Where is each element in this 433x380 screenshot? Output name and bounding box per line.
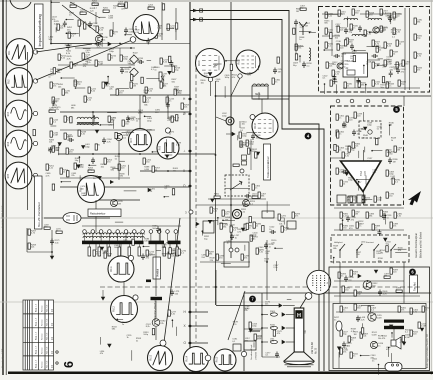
value label xyxy=(93,176,99,180)
value label xyxy=(80,186,86,190)
resistor RG8 xyxy=(380,26,388,32)
wire xyxy=(334,280,404,282)
junction xyxy=(274,247,276,249)
resistor RC5 xyxy=(64,116,73,122)
electrolytic CM1 xyxy=(334,317,342,331)
diode DV1 xyxy=(256,152,259,155)
tube Rö13 xyxy=(148,346,173,371)
junction xyxy=(333,257,335,259)
value label xyxy=(94,5,100,9)
wire xyxy=(391,333,393,338)
junction xyxy=(215,154,217,156)
resistor RBB5 xyxy=(138,244,141,256)
svg-text:Service: Service xyxy=(42,304,44,312)
value label xyxy=(375,46,381,50)
resistor xyxy=(337,132,339,138)
wire xyxy=(380,196,382,201)
value label xyxy=(367,122,373,126)
resistor xyxy=(169,248,171,254)
diamond junction xyxy=(130,55,139,64)
resistor RJ8 xyxy=(386,170,395,176)
value label xyxy=(370,355,376,359)
resistor RBB3 xyxy=(118,244,121,256)
coil L4 xyxy=(344,18,358,20)
wire xyxy=(95,200,97,232)
wire xyxy=(394,248,407,250)
resistor RB3 xyxy=(155,32,164,38)
value label xyxy=(123,237,129,241)
transistor QA1 xyxy=(95,35,108,42)
junction xyxy=(389,124,391,126)
resistor RG20 xyxy=(332,70,341,76)
resistor RG33 xyxy=(376,46,385,52)
svg-text:Service: Service xyxy=(42,346,44,354)
junction xyxy=(225,60,227,62)
value label xyxy=(155,110,161,114)
wire xyxy=(390,13,392,24)
value label xyxy=(75,158,81,162)
wire xyxy=(331,157,345,159)
wire xyxy=(66,32,78,34)
value label xyxy=(305,330,307,334)
value label xyxy=(128,61,134,65)
wire xyxy=(224,86,226,98)
resistor RJ10 xyxy=(336,168,345,174)
wire horizontal bus y96 xyxy=(216,95,431,97)
value label xyxy=(341,60,347,64)
diode xyxy=(168,71,171,74)
value label xyxy=(372,358,378,362)
wire xyxy=(378,58,383,60)
terminal xyxy=(238,74,242,78)
svg-text:Service: Service xyxy=(42,318,44,326)
resistor xyxy=(95,144,97,150)
capacitor CF1 xyxy=(230,234,240,241)
wire xyxy=(364,147,366,153)
resistor RM4 xyxy=(410,308,419,314)
resistor RK3 xyxy=(380,210,389,216)
value label xyxy=(97,44,103,48)
table xyxy=(23,300,54,370)
tube V1 partial xyxy=(10,0,31,9)
capacitor CH2 xyxy=(294,20,298,27)
value label xyxy=(230,224,236,228)
value label xyxy=(350,56,356,60)
value label xyxy=(135,30,141,34)
resistor RK2 xyxy=(366,212,375,218)
diode xyxy=(211,199,214,202)
resistor RN1 xyxy=(338,272,347,278)
wire xyxy=(363,190,365,205)
resistor RC16 xyxy=(143,158,152,164)
diode DL3 xyxy=(282,340,295,343)
wire vertical bus 2 xyxy=(230,2,232,258)
junction xyxy=(261,327,263,329)
junction xyxy=(215,95,217,97)
resistor RF8 xyxy=(278,214,287,220)
wire diagonal xyxy=(36,44,92,52)
tube Rö10 oval xyxy=(63,213,81,224)
junction xyxy=(324,49,326,51)
value label xyxy=(387,59,393,63)
coil L3 xyxy=(83,236,144,238)
capacitor CE2 xyxy=(170,290,180,297)
resistor xyxy=(330,33,332,39)
value label xyxy=(52,17,57,21)
value label xyxy=(258,247,264,251)
junction xyxy=(369,32,371,34)
resistor xyxy=(52,184,54,190)
value label xyxy=(151,67,157,71)
diode xyxy=(208,73,211,76)
wire xyxy=(164,65,177,67)
junction xyxy=(354,50,356,52)
resistor RM1 xyxy=(354,304,363,310)
value label xyxy=(354,332,360,336)
wire xyxy=(51,230,53,256)
capacitor xyxy=(333,77,337,84)
value label xyxy=(67,56,73,60)
value label xyxy=(359,129,365,133)
resistor RG22 xyxy=(384,60,393,66)
junction xyxy=(360,355,362,357)
capacitor CB1 xyxy=(102,138,112,145)
wire xyxy=(106,244,108,252)
terminal pin xyxy=(116,230,120,241)
wire module boundary inner xyxy=(190,20,324,372)
wire xyxy=(51,43,96,45)
label Impulsverarbeitung xyxy=(35,4,44,49)
resistor RN6 xyxy=(396,287,402,292)
value label xyxy=(152,226,158,230)
wire xyxy=(338,352,340,368)
junction xyxy=(124,34,126,36)
resistor RG5 xyxy=(393,12,402,18)
svg-text:Rö4: Rö4 xyxy=(8,141,10,146)
resistor RV3 xyxy=(252,184,261,190)
junction xyxy=(128,117,130,119)
svg-text:⊥: ⊥ xyxy=(183,149,186,153)
resistor RB12 xyxy=(50,82,59,88)
terminal xyxy=(250,115,255,120)
resistor RJ3 xyxy=(348,146,357,152)
box component xyxy=(262,211,274,218)
wire xyxy=(164,154,172,156)
terminal pin xyxy=(157,230,161,241)
wire xyxy=(44,217,63,219)
terminal xyxy=(205,355,211,361)
capacitor CK2 xyxy=(382,214,392,221)
diode xyxy=(345,173,348,176)
junction xyxy=(164,196,166,198)
resistor xyxy=(84,23,86,29)
resistor RM11 xyxy=(418,322,427,328)
box component xyxy=(203,221,214,240)
junction xyxy=(371,150,373,152)
wire xyxy=(83,48,91,50)
value label xyxy=(232,75,238,79)
resistor RBB4 xyxy=(128,244,131,256)
svg-text:Service: Service xyxy=(42,360,44,368)
capacitor CN1 xyxy=(344,276,354,283)
value label xyxy=(48,148,54,152)
value label xyxy=(112,326,118,330)
value label xyxy=(172,248,178,252)
capacitor CJ3 xyxy=(342,170,349,174)
resistor RB9 xyxy=(108,54,117,60)
junction xyxy=(385,215,387,217)
junction xyxy=(377,64,379,66)
wire xyxy=(50,125,56,127)
terminal Rö2 pin xyxy=(32,79,38,83)
value label xyxy=(204,73,210,77)
junction xyxy=(159,228,161,230)
wire xyxy=(166,27,174,29)
capacitor CK1 xyxy=(346,216,356,223)
capacitor CE1 xyxy=(141,254,151,261)
value label xyxy=(305,23,311,27)
value label xyxy=(49,37,54,41)
resistor RD3 xyxy=(44,224,50,229)
capacitor CF3 xyxy=(270,230,277,234)
wire diagonal xyxy=(70,2,100,18)
tube Rö3 xyxy=(5,100,32,127)
node 5 disc xyxy=(393,106,400,113)
value label xyxy=(357,182,363,186)
svg-text:NE11: NE11 xyxy=(255,94,261,96)
resistor RC7 xyxy=(64,133,73,139)
value label xyxy=(86,50,92,54)
diode xyxy=(208,220,211,223)
resistor RF_h1 xyxy=(214,193,220,198)
wire xyxy=(50,0,52,44)
value label xyxy=(95,145,101,149)
value label xyxy=(351,329,357,333)
junction xyxy=(299,55,301,57)
wire xyxy=(92,112,94,126)
wire xyxy=(249,330,261,332)
value label xyxy=(366,61,372,65)
value label xyxy=(100,351,105,355)
wire xyxy=(231,78,240,96)
wire xyxy=(128,165,130,176)
ferrite bar 3 xyxy=(168,241,181,245)
wire xyxy=(223,219,235,221)
value label xyxy=(386,57,392,61)
node X xyxy=(183,169,192,173)
resistor RJ12 xyxy=(350,196,358,202)
resistor RC15 xyxy=(118,164,127,170)
wire xyxy=(124,190,137,192)
value label xyxy=(341,54,347,58)
transistor QB1 xyxy=(115,133,129,140)
wire diagonal xyxy=(228,291,245,340)
junction xyxy=(363,65,365,67)
resistor RV4 xyxy=(258,192,267,198)
svg-text:17TB400: 17TB400 xyxy=(256,351,258,360)
terminal xyxy=(235,248,239,252)
resistor RJ11 xyxy=(340,180,349,186)
value label xyxy=(146,324,152,328)
ferrite bar xyxy=(82,241,144,245)
capacitor xyxy=(332,74,336,81)
wire xyxy=(89,164,96,166)
resistor RM3 xyxy=(398,306,407,312)
wire xyxy=(362,323,364,332)
resistor xyxy=(382,77,384,83)
arrow mark xyxy=(408,191,421,205)
diode DF2 xyxy=(241,228,244,231)
wire xyxy=(365,85,367,94)
resistor RM12 xyxy=(422,306,431,312)
node 7 disc xyxy=(249,296,256,303)
resistor RB23 xyxy=(96,26,105,32)
value label xyxy=(344,346,349,350)
svg-text:Service: Service xyxy=(42,332,44,340)
wire xyxy=(125,34,132,36)
resistor RF_h2 xyxy=(252,193,258,198)
svg-text:Rö18: Rö18 xyxy=(255,122,257,128)
svg-text:Ton-ZF-Verstärker: Ton-ZF-Verstärker xyxy=(37,202,41,227)
value label xyxy=(103,251,108,255)
resistor RB1 xyxy=(68,32,77,38)
junction xyxy=(309,32,311,34)
wire xyxy=(76,87,86,89)
svg-text:Rö8: Rö8 xyxy=(159,145,161,150)
resistor RB22 xyxy=(120,55,129,61)
wire xyxy=(360,13,402,15)
value label xyxy=(277,331,283,335)
resistor RC_h1 xyxy=(49,107,55,112)
wire xyxy=(403,262,405,303)
diode xyxy=(108,344,111,347)
wire xyxy=(354,77,356,88)
svg-text:Rö3: Rö3 xyxy=(8,111,10,116)
resistor RA5 xyxy=(80,9,86,14)
diode DN2 xyxy=(374,270,377,273)
wire xyxy=(334,229,404,231)
tube Rö6 xyxy=(133,15,159,41)
svg-text:TDA: TDA xyxy=(360,171,363,176)
wire xyxy=(365,175,367,184)
svg-text:Abgl. 1-5: Abgl. 1-5 xyxy=(35,345,38,354)
box component xyxy=(337,195,365,203)
value label xyxy=(240,128,246,132)
capacitor CB4 xyxy=(91,158,95,165)
wire xyxy=(53,100,55,107)
value label xyxy=(225,75,231,79)
resistor RD1 xyxy=(28,229,37,235)
junction xyxy=(215,286,217,288)
diode xyxy=(249,329,252,332)
capacitor CA2 xyxy=(124,28,134,35)
value label xyxy=(257,336,263,340)
resistor RG29 xyxy=(398,80,407,86)
wire xyxy=(331,20,333,56)
wire xyxy=(155,301,157,319)
value label xyxy=(52,105,58,109)
value label xyxy=(237,229,243,233)
terminal pin xyxy=(124,230,128,241)
svg-text:Rö1: Rö1 xyxy=(9,50,11,55)
value label xyxy=(54,21,60,25)
svg-text:Abgl. 1-5: Abgl. 1-5 xyxy=(35,359,38,368)
value label xyxy=(50,69,56,73)
wire xyxy=(51,1,60,3)
resistor RC10 xyxy=(66,148,75,154)
capacitor CJ2 xyxy=(388,158,398,165)
wire xyxy=(225,188,250,190)
wire xyxy=(171,320,173,327)
wire xyxy=(347,17,349,28)
junction xyxy=(66,19,68,21)
junction xyxy=(79,156,81,158)
value label xyxy=(400,340,406,344)
node 3 xyxy=(185,210,193,215)
label Videoverstärker xyxy=(264,144,271,180)
value label xyxy=(296,9,302,13)
resistor RN7 xyxy=(390,268,399,274)
resistor xyxy=(246,223,248,229)
resistor RL4 xyxy=(249,322,258,328)
value label xyxy=(348,177,354,181)
value label xyxy=(162,244,168,248)
resistor RK5 xyxy=(340,224,349,230)
value label xyxy=(398,248,404,252)
junction xyxy=(391,332,393,334)
resistor RF0 xyxy=(220,223,229,229)
wire xyxy=(78,26,80,37)
value label xyxy=(383,27,389,31)
wire xyxy=(201,231,203,235)
junction xyxy=(100,124,102,126)
wire bottom enclosure xyxy=(244,293,431,371)
svg-text:Sach-Nr. 29305-044.45: Sach-Nr. 29305-044.45 xyxy=(1,205,4,228)
value label xyxy=(382,336,388,340)
resistor RJ9 xyxy=(392,178,401,184)
wire xyxy=(93,116,95,122)
resistor xyxy=(176,115,178,121)
svg-text:Rö11: Rö11 xyxy=(111,266,113,272)
junction xyxy=(365,84,367,86)
svg-text:Helligkeit: Helligkeit xyxy=(334,241,343,244)
resistor xyxy=(293,28,295,34)
wire xyxy=(208,198,266,200)
value label xyxy=(377,126,383,130)
wire xyxy=(65,44,72,46)
wire xyxy=(357,179,371,181)
node ⊥ xyxy=(183,149,192,153)
resistor xyxy=(141,77,143,83)
diode xyxy=(77,165,80,168)
junction xyxy=(143,246,145,248)
resistor xyxy=(273,330,275,336)
wire xyxy=(196,204,290,206)
capacitor CG3 xyxy=(388,16,398,23)
value label xyxy=(120,173,126,177)
label AW43-88 xyxy=(310,342,318,354)
wire xyxy=(100,16,106,18)
module box 4 xyxy=(333,304,426,369)
resistor RF4 xyxy=(206,250,215,256)
terminal xyxy=(160,340,166,346)
wire xyxy=(299,56,301,62)
wire xyxy=(299,30,311,32)
resistor RJ6 xyxy=(386,150,395,156)
value label xyxy=(114,245,119,249)
value label xyxy=(122,322,128,326)
tube Rö2 xyxy=(6,68,33,95)
